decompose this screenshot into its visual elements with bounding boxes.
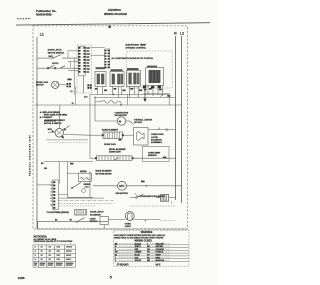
- inductor small winding on wire: [102, 100, 117, 103]
- node Publication No. text: [36, 9, 57, 17]
- wire timer bottom line: [144, 92, 171, 94]
- node broil element terminals: [95, 157, 97, 159]
- wire ladder right lead: [59, 193, 68, 195]
- wire right dashed stub: [160, 220, 176, 222]
- wire ladder left lead: [37, 184, 53, 186]
- wire light switch drop: [103, 225, 105, 230]
- wire mid bus 2: [95, 97, 176, 99]
- node ELECTRONIC TIMER DYNAMIC CONTROL label: [126, 44, 147, 49]
- connector junction cluster: [87, 84, 91, 88]
- resistor broil element: [97, 156, 133, 161]
- node broil relay label: [111, 69, 123, 71]
- wire latch motor leads: [48, 105, 90, 135]
- node junction dots mid bus: [94, 94, 121, 106]
- node BK label fan row: [141, 181, 145, 183]
- switch interlock: [130, 194, 150, 198]
- node latch solenoid label right: [136, 193, 166, 198]
- motor M2: [117, 117, 125, 125]
- node zone tick 6: [109, 25, 111, 28]
- wire bottom long 1: [37, 220, 108, 222]
- wire C1 to C2 top: [91, 47, 105, 49]
- wire L1 bus: [36, 37, 38, 229]
- wire jog to frame bottom: [37, 221, 39, 229]
- node header artifact streak: [17, 18, 31, 20]
- node transformer label: [147, 66, 157, 68]
- wire cluster bottom lines: [46, 139, 88, 141]
- wire right drop: [168, 95, 170, 106]
- wire fan motor row: [93, 185, 182, 187]
- node wiring code rows: [115, 242, 165, 262]
- wire switch to lamp: [108, 219, 125, 221]
- wire top rule: [16, 23, 210, 25]
- node P1 pin wire labels: [86, 47, 89, 72]
- motor M4 oven fan: [116, 181, 129, 195]
- node broil element label: [109, 149, 126, 154]
- node bake element terminals: [102, 134, 104, 136]
- node bake element label: [102, 128, 119, 131]
- node bake element lower label: [96, 170, 113, 176]
- wire clock feeds: [59, 198, 114, 206]
- wire L2 bus: [181, 36, 183, 203]
- node warning legend block: [114, 230, 190, 266]
- relay K3: [127, 71, 141, 87]
- node junction X on N wire: [166, 128, 169, 131]
- node DOOR LATCH MOTOR SWITCH label: [48, 49, 65, 55]
- switch latch below solenoid: [76, 218, 85, 223]
- node light switch label: [90, 218, 98, 222]
- node BK label mid wire: [70, 163, 73, 165]
- connector J3 pins: [67, 83, 71, 87]
- wire TOD feed: [67, 172, 78, 174]
- wire mid bus 1: [90, 94, 169, 96]
- wire convection row: [95, 121, 134, 125]
- node bake relay label: [96, 67, 106, 69]
- node DLB relay label: [127, 68, 139, 70]
- node wiring note text: [40, 111, 68, 122]
- wire motor to connector: [59, 84, 67, 86]
- node frame border: [33, 26, 188, 229]
- wire stubs into P1: [68, 51, 79, 71]
- wire door latch row 1: [37, 57, 79, 59]
- node junction tick right bus: [161, 95, 163, 97]
- node pin label above J3: [67, 79, 71, 81]
- switch broil line contact: [114, 158, 120, 161]
- relay coil box: [133, 128, 148, 145]
- node junction fan row: [146, 185, 147, 186]
- node stub wire labels: [95, 88, 162, 91]
- wire lower left branch: [44, 162, 93, 198]
- wire coil box to N bus: [148, 127, 176, 129]
- wire lower-left horizontals: [67, 171, 93, 197]
- node thermal limiter label: [134, 118, 153, 124]
- wire cluster bottom dashed: [48, 142, 88, 144]
- connector P1 ladder: [78, 46, 86, 76]
- wire bake element leads: [90, 134, 133, 136]
- connector P4 clock ladder: [51, 180, 59, 210]
- lamp oven light: [125, 212, 134, 229]
- wire P1 exit down: [82, 76, 84, 93]
- wire relay output stubs: [98, 86, 163, 98]
- wire row1 drop: [73, 58, 75, 94]
- node motor switch throw labels: [52, 62, 59, 64]
- wire bottom long 2: [37, 228, 188, 230]
- motor M3: [55, 129, 64, 138]
- wire dashed lower right: [130, 205, 176, 207]
- wire broil element leads: [90, 157, 176, 159]
- wire N bus: [175, 36, 177, 200]
- node feed arrow symbol: [143, 89, 146, 102]
- wire long distribution: [35, 104, 182, 106]
- wire C1 to C2 mid: [91, 54, 105, 56]
- node oven light switch box: [100, 217, 108, 225]
- node title FED355CC WIRING DIAGRAM: [104, 8, 127, 16]
- wire J3 drop: [75, 87, 77, 106]
- node wiring code leader lines: [119, 244, 170, 261]
- node resistance table: [33, 245, 76, 267]
- node clock assembly dashed box: [77, 45, 92, 93]
- wire door latch row 2: [37, 67, 79, 69]
- wire left vertical feeders: [90, 95, 95, 159]
- relay K1: [95, 72, 106, 87]
- wire winding leads: [95, 95, 128, 106]
- connector P2 ladder: [104, 49, 109, 68]
- node wiring code row rules: [114, 245, 189, 262]
- node BK label right bus: [167, 95, 170, 97]
- node door lock motor label: [36, 82, 49, 87]
- node BK label bake lead: [119, 139, 122, 141]
- node convection fan label: [115, 112, 129, 117]
- relay K2: [110, 72, 124, 87]
- node room thermostat label: [151, 134, 164, 144]
- inductor solenoid coil: [75, 210, 87, 215]
- connector latch motor pins: [52, 128, 66, 138]
- transformer T1: [146, 68, 164, 86]
- node solenoid cluster right: [156, 195, 176, 204]
- switch door latch contact: [52, 54, 62, 58]
- node TOD box: [79, 171, 92, 182]
- switch TOD contact: [71, 183, 90, 193]
- node door latch solenoid label: [90, 211, 104, 217]
- motor M1: [52, 81, 59, 88]
- switch contacts row 2: [47, 65, 65, 69]
- resistor bake element: [103, 132, 122, 139]
- node oven sensor box: [143, 146, 170, 161]
- node timer pin labels: [143, 85, 161, 88]
- wire lamp to right: [134, 219, 160, 221]
- node latch motor label: [44, 121, 62, 125]
- node scan noise overlay: [0, 0, 1, 1]
- node timer assembly box: [126, 51, 172, 88]
